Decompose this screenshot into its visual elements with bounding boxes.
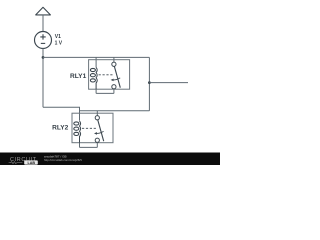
relay RLY1 switch top terminal [112, 62, 116, 66]
minus sign [41, 42, 45, 44]
wire top rail: junction via RLY1 pins to right vertical [43, 56, 149, 58]
wire triangle to V1 [42, 15, 44, 32]
footer bar [0, 153, 220, 166]
relay RLY2 switch top terminal [95, 116, 99, 120]
relay RLY2 actuation arrow [96, 131, 104, 133]
wire RLY1 coil top stub [95, 57, 97, 67]
svg-text:LAB: LAB [28, 161, 36, 165]
node junction dot [42, 56, 45, 59]
svg-text:V1: V1 [55, 34, 61, 40]
CircuitLab logo zigzag [9, 162, 23, 164]
relay RLY2 switch bottom stub [96, 142, 98, 147]
svg-text:1 V: 1 V [55, 41, 63, 47]
relay RLY2 bottom tie wire [80, 146, 98, 148]
relay RLY1 coil bottom stub [95, 89, 97, 93]
relay RLY1 switch bottom terminal [112, 85, 116, 89]
wire RLY2 pin rail to right vertical [80, 110, 150, 112]
relay RLY1 actuation arrow [113, 78, 121, 80]
relay RLY1 switch lever [114, 66, 120, 88]
relay RLY2 switch lever [98, 120, 104, 142]
power symbol VCC triangle [36, 7, 51, 15]
CircuitLab logo LAB box [24, 160, 38, 164]
svg-text:http://circuitlab.com/cxxcj26r: http://circuitlab.com/cxxcj26r5 [44, 158, 82, 162]
relay RLY1 switch bottom stub [113, 89, 115, 94]
relay RLY2 coil [74, 121, 81, 143]
relay RLY1 switch top stub [113, 57, 115, 62]
relay RLY2 coil bottom stub [79, 143, 81, 148]
relay RLY1 actuation dashed line [99, 74, 113, 76]
wire V1 down left side [42, 48, 44, 107]
relay RLY2 switch top stub [96, 111, 98, 116]
relay RLY2 actuation dashed line [82, 127, 96, 129]
wire stub to the right [149, 82, 188, 84]
wire V1 bottom rail to RLY2 coil [43, 107, 80, 120]
svg-text:RLY1: RLY1 [70, 73, 87, 80]
relay RLY2 switch bottom terminal [95, 138, 99, 142]
relay RLY2 box [72, 113, 113, 143]
relay RLY1 coil [90, 67, 97, 89]
node junction dot right [148, 81, 151, 84]
relay RLY1 bottom tie wire [96, 92, 114, 94]
relay RLY1 box [89, 60, 130, 89]
voltage source V1 [35, 32, 52, 49]
wire right vertical [148, 57, 150, 110]
plus sign [40, 34, 45, 39]
svg-text:RLY2: RLY2 [52, 125, 69, 132]
